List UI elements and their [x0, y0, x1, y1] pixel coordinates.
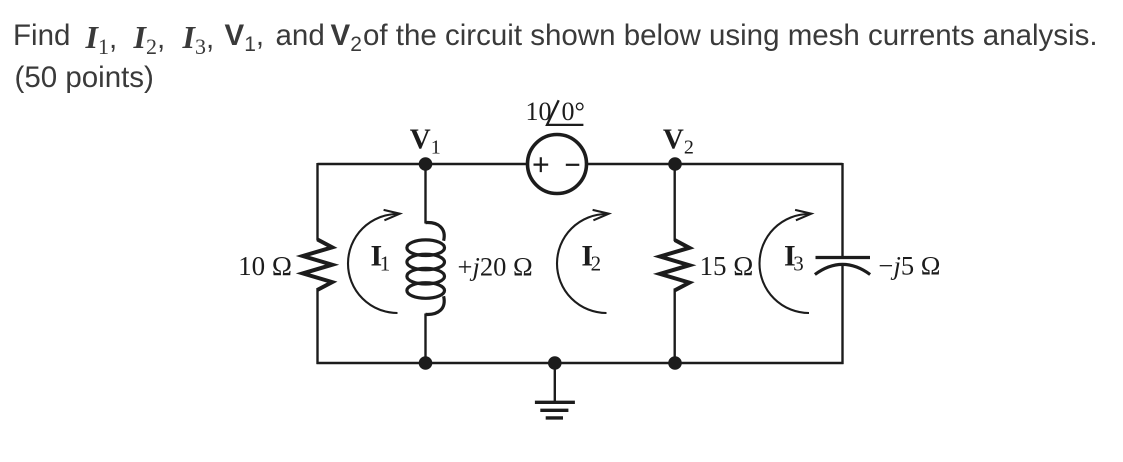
mesh current I2 arc	[557, 214, 607, 313]
inductor L coil loop 2	[407, 254, 445, 270]
mesh current I3 arrowhead	[795, 210, 811, 220]
svg-text:15 Ω: 15 Ω	[700, 251, 754, 281]
node bottom-left dot	[419, 356, 433, 370]
ground bar 2	[540, 409, 568, 412]
capacitor C -j5 top plate	[816, 256, 871, 259]
node V2 dot	[668, 157, 682, 171]
svg-text:V: V	[410, 124, 431, 156]
ground bar 1	[535, 401, 575, 404]
mesh current I3 arc	[759, 214, 809, 313]
svg-text:−j5 Ω: −j5 Ω	[879, 251, 941, 281]
inductor L +j20 top hook	[426, 223, 445, 241]
svg-text:+j20 Ω: +j20 Ω	[458, 252, 533, 282]
wire 15 ohm branch upper	[674, 164, 676, 241]
inductor L bottom hook	[426, 296, 445, 314]
node ground dot	[548, 356, 562, 370]
wire left vertical upper	[316, 163, 318, 241]
title line 1	[13, 19, 70, 53]
wire right vertical lower	[841, 266, 843, 365]
mesh current I1 arc	[348, 214, 398, 313]
inductor L coil loop 3	[407, 268, 445, 284]
inductor L coil loop 1	[407, 240, 445, 256]
svg-text:0°: 0°	[562, 97, 585, 126]
voltage source minus sign	[566, 164, 580, 166]
wire inductor branch upper	[424, 164, 426, 224]
voltage source plus sign	[534, 157, 549, 172]
title line 2	[15, 61, 154, 95]
svg-text:2: 2	[684, 137, 694, 159]
resistor R 15 ohm	[660, 240, 689, 290]
svg-text:V: V	[663, 124, 684, 156]
wire bottom	[317, 362, 844, 364]
angle symbol of phasor	[547, 100, 583, 125]
wire right vertical upper	[841, 163, 843, 257]
wire top-right segment	[587, 163, 843, 165]
ground stem	[554, 363, 556, 401]
wire top-left segment	[318, 163, 528, 165]
wire left vertical lower	[316, 288, 318, 364]
mesh current I2 arrowhead	[593, 210, 609, 220]
voltage source VS circle	[528, 135, 587, 194]
svg-text:1: 1	[431, 137, 441, 159]
mesh current I1 arrowhead	[384, 210, 400, 220]
capacitor C -j5 curved plate	[815, 264, 870, 274]
wire 15 ohm branch lower	[674, 289, 676, 364]
resistor R 10 ohm	[303, 240, 332, 290]
svg-text:2: 2	[591, 252, 602, 276]
node V1 dot	[419, 157, 433, 171]
node bottom-right dot	[668, 356, 682, 370]
ground bar 3	[546, 416, 563, 419]
svg-text:10 Ω: 10 Ω	[238, 251, 292, 281]
svg-text:1: 1	[380, 252, 391, 276]
wire inductor branch lower	[424, 314, 426, 364]
inductor L coil loop 4	[407, 283, 445, 299]
svg-text:3: 3	[793, 252, 804, 276]
